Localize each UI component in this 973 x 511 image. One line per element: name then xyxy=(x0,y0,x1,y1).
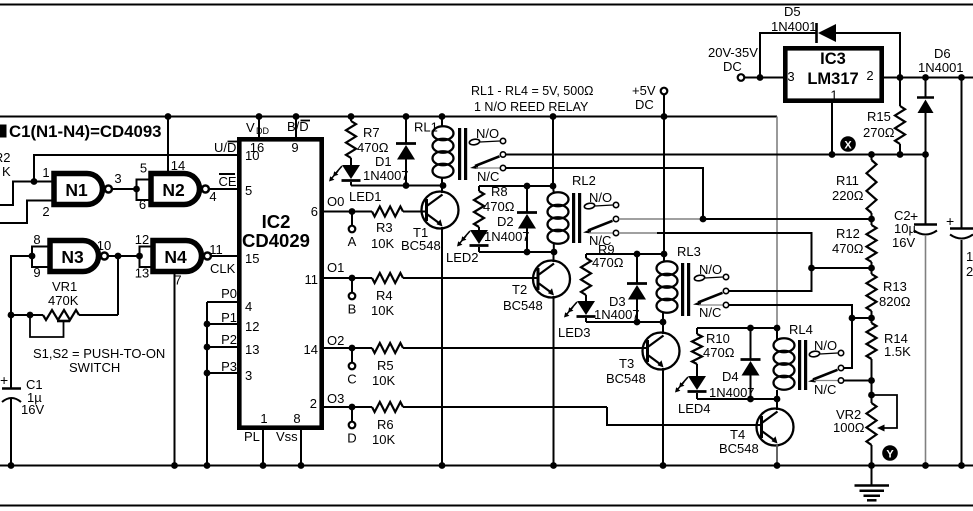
svg-text:6: 6 xyxy=(139,197,146,212)
svg-text:25: 25 xyxy=(966,264,973,279)
wire T3 collector xyxy=(662,322,664,334)
pin 14 of IC2 xyxy=(304,342,318,357)
svg-text:RL2: RL2 xyxy=(572,173,596,188)
svg-text:+5V: +5V xyxy=(632,83,656,98)
label C4 value (clipped) xyxy=(966,249,973,264)
wire N3 input feed xyxy=(11,256,32,315)
svg-text:N2: N2 xyxy=(162,180,185,200)
node VR1 wiper tie xyxy=(27,312,34,319)
wire N1 pin1 xyxy=(34,181,52,183)
node stage4 rail supply xyxy=(774,325,781,332)
node RL2 coil bottom xyxy=(551,249,558,256)
reed contact RL3 xyxy=(693,274,729,307)
label VR1 xyxy=(52,279,77,294)
svg-text:RL4: RL4 xyxy=(789,322,813,337)
diode D2 xyxy=(484,186,537,252)
svg-text:13: 13 xyxy=(245,342,259,357)
svg-text:5: 5 xyxy=(140,161,147,176)
svg-text:Vss: Vss xyxy=(276,429,298,444)
label Vss xyxy=(276,429,298,444)
label T1 xyxy=(413,225,428,240)
wire N2 input bracket xyxy=(137,180,150,201)
pin 11 of IC2 xyxy=(305,272,319,287)
label LED2 xyxy=(446,250,479,265)
svg-text:270Ω: 270Ω xyxy=(863,125,895,140)
svg-text:LED3: LED3 xyxy=(558,325,591,340)
svg-text:CLK: CLK xyxy=(210,261,236,276)
relay coil RL1 xyxy=(433,117,468,186)
pin 9 of IC2 xyxy=(291,140,298,155)
reed contact RL4 xyxy=(808,350,844,383)
node bus VDD xyxy=(256,113,263,120)
wire T2 collector xyxy=(553,252,555,262)
node P1 xyxy=(204,321,211,328)
svg-text:9: 9 xyxy=(33,265,40,280)
svg-text:D: D xyxy=(347,431,356,446)
node C4 ground xyxy=(958,462,965,469)
node VR2 ground xyxy=(868,462,875,469)
wire N3 input bracket xyxy=(32,247,48,268)
label P2 xyxy=(221,332,237,347)
resistor R7 xyxy=(346,117,389,166)
relay coil RL2 xyxy=(548,186,582,252)
svg-text:BC548: BC548 xyxy=(401,238,441,253)
svg-text:9: 9 xyxy=(291,140,298,155)
label C1 voltage xyxy=(21,402,44,417)
node ADJ R15 xyxy=(897,151,904,158)
label RL4 N/C xyxy=(814,382,836,397)
svg-text:R15: R15 xyxy=(867,109,891,124)
label C2 plus xyxy=(910,208,918,224)
diode D6 xyxy=(917,78,934,155)
wire RL3 supply drop xyxy=(663,117,665,255)
svg-text:+: + xyxy=(0,372,8,388)
svg-text:2: 2 xyxy=(866,68,873,83)
svg-text:3: 3 xyxy=(787,69,794,84)
label C1 xyxy=(26,377,43,392)
wire RL2 N/C gray xyxy=(619,232,657,234)
gate N2 xyxy=(151,174,209,205)
resistor R2 (off-page fragment) xyxy=(0,150,11,179)
wire N1 pin1 stair to S1 xyxy=(0,182,34,206)
label RL2 N/O xyxy=(589,190,612,205)
svg-text:R13: R13 xyxy=(883,279,907,294)
wire N1 out to N2 in xyxy=(112,188,137,190)
svg-text:1: 1 xyxy=(42,165,49,180)
label T3 xyxy=(619,356,634,371)
pin 12 of IC2 xyxy=(245,319,259,334)
pin 2 of IC2 xyxy=(310,396,317,411)
svg-text:10: 10 xyxy=(245,148,259,163)
node N4 input junction xyxy=(136,253,143,260)
transistor T3 xyxy=(643,333,680,370)
pin 4 of N2 xyxy=(209,189,216,204)
pin 5 of N2 xyxy=(140,161,147,176)
svg-text:1N4001: 1N4001 xyxy=(771,19,817,34)
node IC3 input xyxy=(757,74,764,81)
label RL1 N/O xyxy=(476,126,499,141)
node RL2NC RL3arm junction xyxy=(808,265,815,272)
wire IC3 output xyxy=(884,77,973,79)
wire T3 emitter to ground xyxy=(662,368,664,466)
wire RL3 arm to R12/R13 junction xyxy=(729,268,812,291)
pin 2 of N1 xyxy=(42,204,49,219)
label RL3 N/C xyxy=(699,305,721,320)
wire stage3 top rail xyxy=(586,253,664,255)
relay coil RL3 xyxy=(657,254,691,322)
label VR2 xyxy=(836,407,861,422)
label O0 xyxy=(327,194,344,209)
svg-text:IC3: IC3 xyxy=(820,50,846,68)
pin 8 of N3 xyxy=(33,232,40,247)
svg-text:PL: PL xyxy=(244,429,260,444)
svg-text:R3: R3 xyxy=(376,220,393,235)
node O1 tap xyxy=(349,275,356,282)
border top xyxy=(0,4,973,6)
pin 6 of IC2 xyxy=(311,204,318,219)
svg-text:10: 10 xyxy=(97,238,111,253)
label RL1 N/C xyxy=(477,169,499,184)
node D4 bottom xyxy=(747,396,754,403)
svg-text:10K: 10K xyxy=(371,236,394,251)
LED2 xyxy=(457,230,489,252)
label C2 voltage xyxy=(892,235,915,250)
wire RL2 arm gray xyxy=(619,218,703,220)
svg-text:3: 3 xyxy=(245,368,252,383)
wire RL4 N/C to R14/VR2 junction xyxy=(844,380,872,382)
potentiometer VR2 xyxy=(867,395,898,466)
node ADJ R11 xyxy=(868,151,875,158)
wire P1 xyxy=(207,323,239,325)
pin 2 of IC3 xyxy=(866,68,873,83)
label VDD xyxy=(246,120,269,136)
svg-text:RL1: RL1 xyxy=(414,120,438,135)
node RL3NC RL4arm junction xyxy=(849,315,856,322)
wire T1 collector xyxy=(441,186,443,194)
svg-text:13: 13 xyxy=(135,266,149,281)
svg-text:SWITCH: SWITCH xyxy=(69,360,120,375)
node bus pin14 xyxy=(165,113,172,120)
node P ground xyxy=(204,462,211,469)
svg-text:1: 1 xyxy=(260,411,267,426)
resistor R13 xyxy=(867,268,911,318)
label +5V DC xyxy=(635,97,654,112)
terminal D xyxy=(347,407,356,446)
node bus RL2 drop xyxy=(550,113,557,120)
LED4 xyxy=(675,376,707,399)
node R14 RL4NC junction xyxy=(868,377,875,384)
wire T1 emitter to ground xyxy=(441,227,443,466)
wire RL2 arm to R11/R12 junction xyxy=(703,218,872,220)
label T3 BC548 xyxy=(606,371,646,386)
svg-text:N/O: N/O xyxy=(814,338,837,353)
wire P bracket to ground xyxy=(206,373,208,466)
wire O3 xyxy=(324,406,607,408)
wire +5V bus xyxy=(0,116,664,118)
svg-text:V: V xyxy=(246,120,255,135)
terminal B xyxy=(348,278,357,317)
svg-text:R12: R12 xyxy=(836,226,860,241)
pin 10 of N3 xyxy=(97,238,111,253)
node N1 input junction xyxy=(31,178,38,185)
svg-text:C: C xyxy=(347,372,356,387)
wire T4 collector xyxy=(776,399,778,410)
label P3 xyxy=(221,359,237,374)
label VR2 value xyxy=(833,420,865,435)
wire IC2 PL pin1 to ground xyxy=(262,428,264,466)
node C2 ground xyxy=(922,462,929,469)
svg-text:N/O: N/O xyxy=(699,262,722,277)
svg-text:R7: R7 xyxy=(363,125,380,140)
svg-text:N/O: N/O xyxy=(589,190,612,205)
wire IC2 B/D pin9 xyxy=(295,117,297,138)
node Vss ground xyxy=(298,462,305,469)
wire RL2 N/C to R12/R13 junction xyxy=(657,233,872,268)
label LED3 xyxy=(558,325,591,340)
node P2 xyxy=(204,344,211,351)
node stage2 rail supply xyxy=(550,183,557,190)
node PL ground xyxy=(260,462,267,469)
svg-text:DC: DC xyxy=(723,59,742,74)
pin 1 of IC2 xyxy=(260,411,267,426)
wire O1 xyxy=(324,277,537,279)
pin 10 of IC2 xyxy=(245,148,259,163)
node X xyxy=(840,136,856,152)
resistor R4 xyxy=(371,273,403,318)
wire P0 xyxy=(207,301,239,303)
transistor T2 xyxy=(533,261,570,298)
svg-text:RL1 - RL4 = 5V, 500Ω: RL1 - RL4 = 5V, 500Ω xyxy=(471,84,594,98)
IC U3 LM317 body xyxy=(785,48,881,100)
label relay note line2 xyxy=(474,100,589,114)
node N3 input junction xyxy=(29,253,36,260)
pin 1 of IC3 xyxy=(830,88,837,103)
svg-text:CE: CE xyxy=(219,174,237,189)
pin 8 of IC2 xyxy=(293,411,300,426)
pin 14 of N2 xyxy=(171,158,185,173)
svg-text:P3: P3 xyxy=(221,359,237,374)
node T4 emitter ground xyxy=(774,462,781,469)
label RL4 N/O xyxy=(814,338,837,353)
pin 3 of N1 xyxy=(114,171,121,186)
node stage3 rail supply xyxy=(661,251,668,258)
gate N4 xyxy=(153,241,211,272)
label O3 xyxy=(327,391,344,406)
terminal C xyxy=(347,348,356,387)
svg-text:Y: Y xyxy=(886,449,894,461)
node pin7 ground xyxy=(171,462,178,469)
label T1 BC548 xyxy=(401,238,441,253)
label D6 xyxy=(934,46,951,61)
svg-text:820Ω: 820Ω xyxy=(879,294,911,309)
label P1 xyxy=(221,310,237,325)
wire RL4 arm link xyxy=(844,318,852,368)
svg-text:+: + xyxy=(946,213,954,229)
svg-text:12: 12 xyxy=(245,319,259,334)
svg-text:BC548: BC548 xyxy=(719,441,759,456)
pin 4 of IC2 xyxy=(245,299,252,314)
node VR1 left xyxy=(8,312,15,319)
label C4 plus xyxy=(946,213,954,229)
node IC3 out C3cap xyxy=(958,74,965,81)
svg-text:470Ω: 470Ω xyxy=(703,345,735,360)
svg-text:R5: R5 xyxy=(377,358,394,373)
label RL1 xyxy=(414,120,438,135)
transistor T1 xyxy=(422,192,459,229)
terminal 20V-35V DC xyxy=(738,74,783,81)
svg-text:R11: R11 xyxy=(836,173,859,188)
svg-text:B: B xyxy=(348,302,357,317)
node RL4 coil bottom xyxy=(774,396,781,403)
label C2 xyxy=(894,208,911,223)
transistor T4 xyxy=(757,409,794,446)
svg-text:14: 14 xyxy=(171,158,185,173)
svg-text:2: 2 xyxy=(42,204,49,219)
svg-text:N4: N4 xyxy=(164,247,187,267)
svg-text:470Ω: 470Ω xyxy=(592,255,624,270)
label T4 xyxy=(730,427,745,442)
svg-text:DD: DD xyxy=(256,126,269,136)
pin 11 of N4 xyxy=(209,242,223,257)
wire IC2 VDD pin16 xyxy=(258,117,260,138)
diode D1 xyxy=(363,117,416,186)
node T2 emitter ground xyxy=(550,462,557,469)
resistor R12 xyxy=(832,219,877,268)
diode D5 xyxy=(760,23,900,78)
LED3 xyxy=(564,301,596,322)
svg-text:16V: 16V xyxy=(892,235,915,250)
label T2 xyxy=(512,282,527,297)
wire N3 out down to VR1 xyxy=(117,256,119,315)
svg-text:T2: T2 xyxy=(512,282,527,297)
pin 1 of N1 xyxy=(42,165,49,180)
svg-text:5: 5 xyxy=(245,183,252,198)
node O3 tap xyxy=(349,404,356,411)
resistor R11 xyxy=(832,155,877,220)
svg-text:470K: 470K xyxy=(48,293,79,308)
node bus B/D xyxy=(293,113,300,120)
svg-text:T4: T4 xyxy=(730,427,745,442)
svg-text:N1: N1 xyxy=(65,180,88,200)
svg-text:O3: O3 xyxy=(327,391,344,406)
pin 9 of N3 xyxy=(33,265,40,280)
svg-text:D2: D2 xyxy=(497,214,514,229)
svg-text:CD4029: CD4029 xyxy=(242,230,310,251)
label relay note line1 xyxy=(471,84,594,98)
wire N4 out to IC2 pin15 (CLK) xyxy=(211,255,239,257)
resistor R10 xyxy=(692,328,735,376)
node bus RL1 xyxy=(439,113,446,120)
label RL4 xyxy=(789,322,813,337)
label CLK xyxy=(210,261,236,276)
svg-text:2: 2 xyxy=(310,396,317,411)
svg-text:11: 11 xyxy=(209,242,223,257)
wire P3 xyxy=(207,372,239,374)
pin 3 of IC2 xyxy=(245,368,252,383)
wire U/D from N1 node to IC2 pin10 xyxy=(34,155,239,182)
label CE-bar xyxy=(219,174,237,189)
svg-text:1 N/O REED RELAY: 1 N/O REED RELAY xyxy=(474,100,589,114)
IC U2 CD4029 body xyxy=(239,139,321,427)
node R13 R14 junction xyxy=(868,315,875,322)
capacitor C2 xyxy=(914,155,937,466)
capacitor C1 xyxy=(2,315,21,466)
pin 15 of IC2 xyxy=(245,251,259,266)
resistor R9 xyxy=(581,242,624,301)
node RL1NC RL2arm junction xyxy=(700,216,707,223)
svg-text:LM317: LM317 xyxy=(807,70,858,88)
svg-text:10: 10 xyxy=(966,249,973,264)
svg-text:N3: N3 xyxy=(61,247,84,267)
node D2 bottom xyxy=(524,249,531,256)
node bus D1 xyxy=(403,113,410,120)
label RL2 N/C xyxy=(589,233,611,248)
svg-text:20V-35V: 20V-35V xyxy=(708,45,758,60)
label PL xyxy=(244,429,260,444)
svg-text:BC548: BC548 xyxy=(503,298,543,313)
svg-text:1N4007: 1N4007 xyxy=(363,168,409,183)
wire RL1 N/C to R11 junction xyxy=(506,168,703,219)
svg-text:12: 12 xyxy=(135,232,149,247)
label RL2 xyxy=(572,173,596,188)
wire IC3 adj pin1 xyxy=(831,100,833,155)
node P3 xyxy=(204,370,211,377)
label 20V-35V xyxy=(708,45,758,60)
border bottom xyxy=(0,505,973,507)
wire stage3 collector rail xyxy=(586,321,663,323)
svg-text:RL3: RL3 xyxy=(677,244,701,259)
resistor R8 xyxy=(474,184,515,230)
node T3 emitter ground xyxy=(660,462,667,469)
svg-text:D5: D5 xyxy=(784,4,801,19)
capacitor C4 (edge) xyxy=(950,78,973,466)
wire IC2 Vss pin8 to ground xyxy=(300,428,302,466)
node D3 top xyxy=(634,251,641,258)
svg-text:LED4: LED4 xyxy=(678,401,711,416)
svg-text:1.5K: 1.5K xyxy=(884,344,911,359)
wire stage4 top rail xyxy=(697,327,777,329)
wire stage4 collector rail xyxy=(697,398,777,400)
potentiometer VR1 xyxy=(11,310,118,337)
svg-text:R10: R10 xyxy=(706,331,730,346)
pin 13 of N4 xyxy=(135,266,149,281)
svg-text:N/C: N/C xyxy=(477,169,499,184)
svg-text:10K: 10K xyxy=(372,432,395,447)
node IC3 out R15 xyxy=(897,74,904,81)
label B/D-bar xyxy=(287,119,310,134)
pin 7 of N4 xyxy=(174,273,181,288)
svg-text:470Ω: 470Ω xyxy=(483,199,515,214)
node D1 bottom xyxy=(403,182,410,189)
label O2 xyxy=(327,333,344,348)
pin 13 of IC2 xyxy=(245,342,259,357)
svg-text:3: 3 xyxy=(114,171,121,186)
node RL3 coil bottom xyxy=(660,319,667,326)
label U/D-bar xyxy=(214,140,237,155)
wire stage2 collector rail xyxy=(479,251,554,253)
wire T4 emitter to ground xyxy=(776,444,778,466)
svg-text:14: 14 xyxy=(304,342,318,357)
node N3 output junction xyxy=(115,253,122,260)
pin 5 of IC2 xyxy=(245,183,252,198)
resistor R15 xyxy=(863,78,905,155)
svg-text:4: 4 xyxy=(209,189,216,204)
svg-text:S1,S2 = PUSH-TO-ON: S1,S2 = PUSH-TO-ON xyxy=(33,346,165,361)
wire N4 input bracket xyxy=(140,247,152,268)
wire RL2 supply drop xyxy=(552,117,554,187)
svg-text:R4: R4 xyxy=(376,288,393,303)
label D6 1N4001 xyxy=(918,60,964,75)
